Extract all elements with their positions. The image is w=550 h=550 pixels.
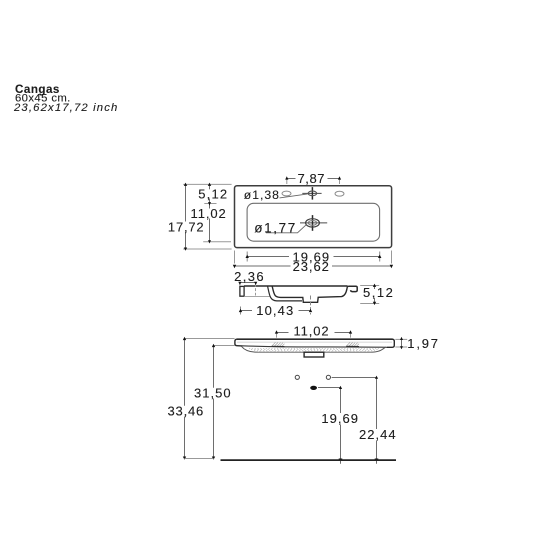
extension line top (back edge) (183, 183, 231, 185)
svg-text:5,12: 5,12 (198, 186, 228, 201)
overflow fitting rectangle (304, 352, 324, 357)
19,69 corner tick (339, 386, 342, 389)
drain hole crosshair (300, 215, 327, 231)
bowl wall outer contour (268, 286, 302, 301)
stipple texture band (249, 348, 380, 351)
33,46 arrows (183, 337, 186, 460)
svg-text:33,46: 33,46 (168, 403, 205, 418)
back edge bar (240, 286, 244, 296)
extension line bottom (5,12 right) (360, 303, 379, 305)
ticks on 5,12/11,02 line (208, 183, 211, 244)
label 17,72 (167, 219, 206, 234)
dimension 5,12 arrows (side view) (373, 284, 376, 306)
dimension 2,36 (240, 283, 256, 296)
svg-text:22,44: 22,44 (359, 427, 397, 442)
22,44 vertical line (376, 378, 378, 430)
svg-text:17,72: 17,72 (168, 219, 205, 234)
extension stub bowl top (204, 203, 216, 205)
drain outlet dot (310, 386, 317, 390)
dimension 7,87 line (287, 179, 340, 185)
svg-text:23,62: 23,62 (293, 259, 330, 274)
leader line for ø1,38 (280, 194, 308, 198)
dimension 11,02 (front view) (276, 333, 350, 338)
svg-text:23,62x17,72 inch: 23,62x17,72 inch (13, 102, 118, 114)
svg-text:10,43: 10,43 (256, 303, 294, 318)
label 11,02 (191, 206, 228, 221)
33,46 extension line (185, 338, 235, 340)
dimension 1,97 arrows (400, 337, 403, 349)
drain hole inner ellipse (308, 221, 317, 226)
rim bar top edge (237, 338, 393, 340)
dimension 7,87 ticks (285, 176, 341, 179)
svg-text:2,36: 2,36 (234, 269, 265, 284)
center faucet hole ellipse (308, 191, 317, 196)
33,46 vertical line (184, 339, 186, 406)
basin outer rectangle (top view) (235, 186, 392, 248)
connector between 33,46 and 31,50 at floor (185, 458, 214, 460)
rim bar left cap (235, 339, 242, 346)
rim inner faint line (237, 341, 392, 343)
fixing pad hatch left (272, 342, 285, 346)
extension from rect right edge down (391, 251, 393, 264)
rim bottom edge (242, 346, 387, 348)
dimension 23,62 line (235, 265, 392, 267)
front rim hook (347, 286, 357, 291)
22,44 corner tick (375, 376, 378, 379)
dimension 23,62 arrows (233, 265, 393, 269)
extension from rect left edge down (234, 251, 236, 264)
dimension 11,02 ticks (front view) (275, 330, 352, 333)
dimension 19,69 ticks (246, 255, 382, 258)
svg-text:7,87: 7,87 (297, 171, 325, 186)
drain centerline (side view) (310, 296, 312, 315)
floor line (221, 459, 397, 461)
svg-text:1,97: 1,97 (407, 336, 440, 351)
svg-text:19,69: 19,69 (321, 411, 359, 426)
leader line for ø1,77 (266, 224, 307, 233)
label 5,12 (198, 186, 228, 201)
bowl wall inner contour (S curve + floor + drain boss) (272, 286, 347, 302)
dimension 17,72 vertical line (185, 185, 187, 250)
drain hole outer ellipse (306, 219, 320, 227)
svg-text:5,12: 5,12 (363, 285, 394, 300)
svg-text:31,50: 31,50 (194, 385, 232, 400)
extension line bottom (front edge) (183, 248, 231, 250)
dimension 5,12 / 11,02 vertical line (209, 184, 211, 241)
svg-text:ø1,77: ø1,77 (254, 221, 297, 236)
31,50 arrows (212, 344, 215, 460)
supply hole right circle (326, 375, 330, 379)
left optional faucet hole (282, 191, 291, 196)
dimension 1,97 (395, 339, 407, 347)
right optional faucet hole (335, 191, 344, 196)
dimension 2,36 arrows (238, 282, 257, 285)
supply hole left circle (295, 375, 299, 379)
19,69 connector line (318, 387, 341, 389)
dimension 17,72 arrows (184, 183, 187, 251)
19,69 vertical line (340, 388, 342, 414)
fixing pad hatch right (347, 342, 360, 346)
31,50 extension line (214, 345, 236, 347)
22,44 connector line (332, 377, 377, 379)
22,44 floor crossing tick (375, 458, 379, 460)
rim bar right cap (387, 339, 394, 347)
deck top line (244, 285, 348, 287)
deck underside line (244, 296, 270, 298)
dimension 10,43 (241, 307, 311, 315)
dimension 19,69 line (247, 252, 380, 262)
svg-text:ø1,38: ø1,38 (244, 188, 280, 202)
extension stub bowl bottom (203, 241, 231, 243)
dimension 5,12 vertical line (side view) (374, 286, 376, 290)
extension line rim top (5,12 right) (360, 285, 379, 287)
19,69 floor crossing tick (339, 458, 343, 460)
dimension 10,43 ticks (239, 309, 312, 312)
svg-text:11,02: 11,02 (293, 323, 329, 338)
basin bowl inner rounded rectangle (247, 203, 380, 241)
31,50 vertical line (213, 346, 215, 388)
svg-text:11,02: 11,02 (191, 206, 227, 221)
center faucet hole crosshair (302, 187, 321, 200)
underbody curve (241, 346, 385, 352)
